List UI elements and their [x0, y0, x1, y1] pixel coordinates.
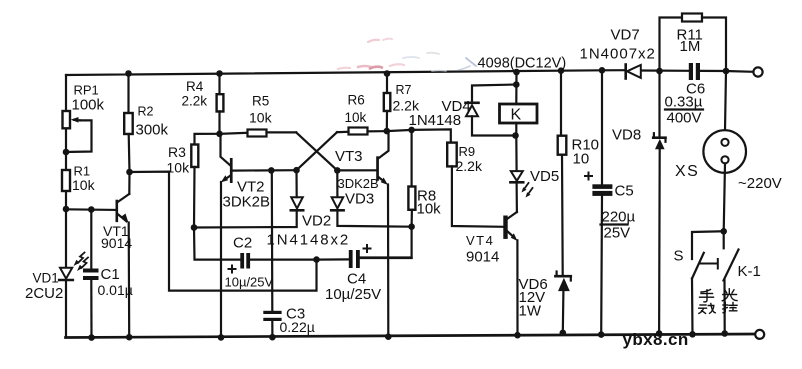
svg-text:VD1: VD1 — [33, 271, 59, 286]
resistor R8 — [360, 130, 415, 258]
socket XS — [703, 71, 746, 231]
wire VT1 base line — [66, 208, 116, 211]
switch K-1 — [724, 231, 739, 333]
svg-text:K-1: K-1 — [738, 263, 761, 280]
node ground C5 — [598, 331, 605, 338]
resistor R2 — [124, 74, 133, 173]
terminal bottom right — [755, 330, 764, 339]
label R10 — [572, 137, 600, 168]
label VT2 — [223, 179, 271, 211]
label VD4 — [409, 98, 471, 129]
node switch top — [720, 228, 727, 235]
node ground C3 — [269, 334, 276, 341]
svg-text:220µ: 220µ — [602, 209, 636, 226]
label R9 — [456, 144, 483, 174]
label R3 — [167, 144, 191, 176]
wire C6 fraction bar — [665, 108, 703, 110]
diode VD3 — [331, 170, 411, 226]
svg-text:XS: XS — [675, 163, 699, 180]
node ground VT4 — [514, 332, 521, 339]
node R3 bottom — [191, 224, 198, 231]
node base line left — [63, 206, 70, 213]
label R1 — [72, 164, 96, 194]
svg-text:S: S — [674, 248, 684, 265]
capacitor C6 — [689, 63, 700, 80]
node R4 top — [216, 70, 223, 77]
resistor R5 — [220, 130, 338, 171]
wire left branch vertical — [65, 75, 67, 338]
resistor R1 — [62, 170, 70, 191]
node VT3 collector — [384, 128, 391, 135]
svg-text:~220V: ~220V — [738, 175, 782, 192]
label VT1 — [101, 223, 132, 251]
svg-text:VD7: VD7 — [611, 27, 640, 44]
svg-text:R4: R4 — [186, 79, 204, 94]
node R7 top — [384, 70, 391, 77]
svg-text:2.2k: 2.2k — [456, 158, 483, 174]
label manual shou dong — [699, 290, 715, 314]
node R2 top — [125, 70, 132, 77]
label R2 — [136, 105, 169, 139]
svg-text:RP1: RP1 — [74, 83, 99, 98]
node ground VT1 — [126, 334, 133, 341]
node C2 C4 junction — [313, 256, 320, 263]
svg-text:4098(DC12V): 4098(DC12V) — [478, 56, 567, 72]
svg-text:300k: 300k — [136, 122, 169, 139]
node R8 top — [408, 127, 415, 134]
node R8 bottom — [408, 223, 415, 230]
node C3 top — [268, 167, 275, 174]
label C3 — [280, 306, 315, 336]
svg-text:R7: R7 — [396, 83, 412, 97]
svg-text:R3: R3 — [168, 144, 186, 160]
label R8 — [417, 188, 442, 218]
transistor VT2 — [221, 134, 297, 338]
label light control guang kong — [722, 289, 737, 313]
label R5 — [249, 94, 273, 126]
svg-text:VD2: VD2 — [302, 213, 331, 230]
svg-text:1N4007x2: 1N4007x2 — [580, 46, 656, 63]
node VD2 junction — [293, 167, 300, 174]
svg-text:C2: C2 — [233, 235, 252, 252]
svg-text:10: 10 — [573, 151, 590, 168]
wire top supply rail — [66, 70, 753, 75]
label VD5 — [530, 168, 559, 185]
resistor R3 — [191, 134, 219, 228]
led VD5 — [510, 136, 532, 213]
node ground VD8 — [656, 330, 663, 337]
diode VD7 — [626, 65, 641, 79]
diode VD2 — [291, 170, 303, 210]
svg-text:10k: 10k — [72, 177, 96, 193]
svg-text:10k: 10k — [417, 201, 442, 218]
label VD6 — [519, 276, 548, 320]
resistor R11 — [660, 14, 727, 72]
svg-text:25V: 25V — [604, 225, 631, 242]
svg-text:9014: 9014 — [101, 235, 132, 251]
label K — [511, 107, 522, 124]
svg-text:C5: C5 — [615, 183, 634, 200]
node VT2 collector — [216, 131, 223, 138]
resistor R4 — [217, 74, 224, 134]
svg-text:C1: C1 — [101, 266, 120, 283]
svg-text:VD8: VD8 — [612, 127, 641, 144]
wire C5 fraction bar — [601, 223, 628, 225]
svg-text:400V: 400V — [667, 110, 702, 127]
label K-1 — [738, 263, 761, 280]
node ground C1 — [88, 334, 95, 341]
svg-text:0.33µ: 0.33µ — [665, 94, 703, 111]
node ground VD6 — [560, 330, 567, 337]
svg-text:100k: 100k — [72, 97, 105, 114]
svg-text:10k: 10k — [249, 110, 273, 126]
potentiometer RP1 — [63, 111, 92, 152]
capacitor C4 — [317, 245, 412, 268]
label C2 — [225, 235, 274, 290]
node VT1 collector — [126, 169, 133, 176]
label VT4 — [466, 233, 499, 266]
label S — [674, 248, 684, 265]
node ground VT3 — [385, 333, 392, 340]
label C5 — [602, 183, 636, 242]
label R11 — [677, 27, 703, 56]
svg-text:2.2k: 2.2k — [182, 94, 208, 109]
label VD8 — [612, 127, 641, 144]
label C1 — [98, 266, 133, 298]
svg-text:10µ/25V: 10µ/25V — [325, 286, 381, 303]
resistor R10 — [558, 71, 567, 275]
label VD3 — [345, 191, 374, 208]
node C1 tap — [88, 206, 95, 213]
relay K — [500, 72, 538, 136]
label VD1 — [25, 271, 63, 303]
svg-text:C4: C4 — [347, 271, 366, 288]
svg-text:VD3: VD3 — [345, 191, 374, 208]
photodiode VD1 — [59, 253, 88, 281]
svg-text:VT3: VT3 — [335, 148, 363, 165]
svg-text:R5: R5 — [252, 94, 269, 109]
node C5 top — [599, 67, 606, 74]
svg-text:1N4148x2: 1N4148x2 — [267, 232, 351, 249]
svg-text:ybx8.cn: ybx8.cn — [623, 330, 689, 349]
svg-text:K: K — [511, 107, 522, 124]
svg-text:1W: 1W — [519, 303, 542, 320]
svg-text:R2: R2 — [138, 105, 154, 119]
node VD4 top — [513, 81, 520, 88]
node ground K-1 — [721, 330, 728, 337]
label VD2 — [267, 213, 351, 249]
svg-text:10µ/25V: 10µ/25V — [225, 275, 274, 290]
node ground VT2 — [218, 334, 225, 341]
svg-text:1N4148: 1N4148 — [409, 112, 462, 129]
zener VD8 — [653, 71, 665, 334]
capacitor C2 — [194, 228, 317, 273]
label VD7 — [580, 27, 656, 63]
node R10 top — [558, 67, 565, 74]
svg-text:2CU2: 2CU2 — [25, 285, 63, 302]
transistor VT1 — [116, 172, 130, 337]
wire VD2 cathode line — [194, 211, 297, 228]
wire trigger line to C2C4 — [130, 172, 317, 291]
resistor R7 — [384, 74, 391, 132]
capacitor C3 — [263, 170, 281, 337]
svg-text:10k: 10k — [167, 160, 191, 176]
svg-text:9014: 9014 — [466, 249, 499, 266]
svg-text:0.01µ: 0.01µ — [98, 282, 133, 298]
label R4 — [182, 79, 208, 109]
label VT3 — [335, 148, 379, 191]
wire bottom ground rail — [66, 334, 756, 338]
node VD8 top — [656, 68, 663, 75]
node VD4 bottom — [512, 132, 519, 139]
capacitor C1 — [83, 210, 99, 338]
svg-text:1M: 1M — [680, 38, 701, 55]
transistor VT3 — [337, 131, 388, 337]
node C6 right — [723, 68, 730, 75]
label 220V — [738, 175, 782, 192]
label C6 — [665, 81, 706, 127]
node wiper junction — [63, 149, 70, 156]
label C4 — [325, 271, 381, 304]
label XS — [675, 163, 699, 180]
svg-text:3DK2B: 3DK2B — [338, 176, 379, 191]
svg-text:10k: 10k — [345, 110, 367, 125]
label R7 — [393, 83, 420, 114]
resistor R9 — [412, 129, 504, 226]
zener VD6 — [555, 272, 570, 333]
svg-text:3DK2B: 3DK2B — [223, 194, 271, 211]
svg-text:VT4: VT4 — [466, 233, 494, 248]
label R6 — [345, 93, 367, 126]
diode VD4 — [466, 85, 517, 136]
node ground S — [689, 331, 696, 338]
svg-text:R6: R6 — [348, 93, 365, 108]
node K top — [513, 69, 520, 76]
transistor VT4 — [503, 212, 517, 335]
capacitor C5 — [585, 70, 612, 334]
resistor R6 — [297, 128, 387, 171]
svg-text:R9: R9 — [459, 144, 476, 159]
switch S — [692, 231, 724, 334]
node VD3 junction — [334, 167, 341, 174]
terminal top right — [753, 67, 762, 76]
watermark remnants — [338, 39, 476, 71]
label RP1 — [72, 83, 105, 114]
svg-text:0.22µ: 0.22µ — [280, 319, 315, 335]
svg-text:VD5: VD5 — [530, 168, 559, 185]
